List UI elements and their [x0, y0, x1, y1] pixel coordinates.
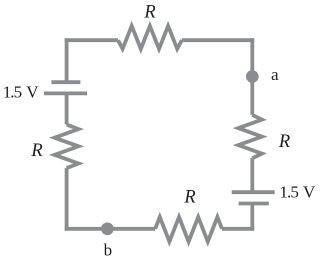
resistor R4 (right) [238, 115, 262, 158]
wire bottom side right segment [222, 227, 254, 231]
wire bottom side left segment [65, 227, 156, 231]
wire right side resistor to battery [250, 158, 254, 192]
wire top side left segment [65, 38, 118, 42]
svg-text:R: R [30, 141, 42, 161]
svg-text:R: R [143, 3, 155, 23]
svg-text:R: R [278, 132, 290, 152]
resistor R1 (top) [118, 26, 182, 49]
wire top side right segment [182, 38, 254, 42]
battery B2 long plate (positive) [232, 190, 275, 194]
svg-text:b: b [104, 240, 113, 259]
wire right side from top corner through node a to resistor [250, 38, 254, 115]
wire left side from top corner to battery [65, 38, 69, 82]
battery B1 short plate (negative) [51, 80, 80, 84]
battery B1 long plate (positive) [44, 92, 87, 96]
wire left side resistor to bottom corner [65, 168, 69, 231]
svg-text:R: R [183, 187, 195, 207]
node b (junction dot) [101, 222, 114, 235]
node a (junction dot) [246, 70, 259, 83]
resistor R2 (left) [55, 125, 79, 169]
battery B2 short plate (negative) [239, 202, 269, 206]
svg-text:1.5 V: 1.5 V [3, 83, 40, 102]
resistor R3 (bottom) [155, 217, 222, 242]
svg-text:1.5 V: 1.5 V [279, 182, 316, 201]
wire left side battery to resistor [65, 93, 69, 124]
wire right side battery to bottom corner [250, 204, 254, 231]
svg-text:a: a [271, 65, 279, 84]
